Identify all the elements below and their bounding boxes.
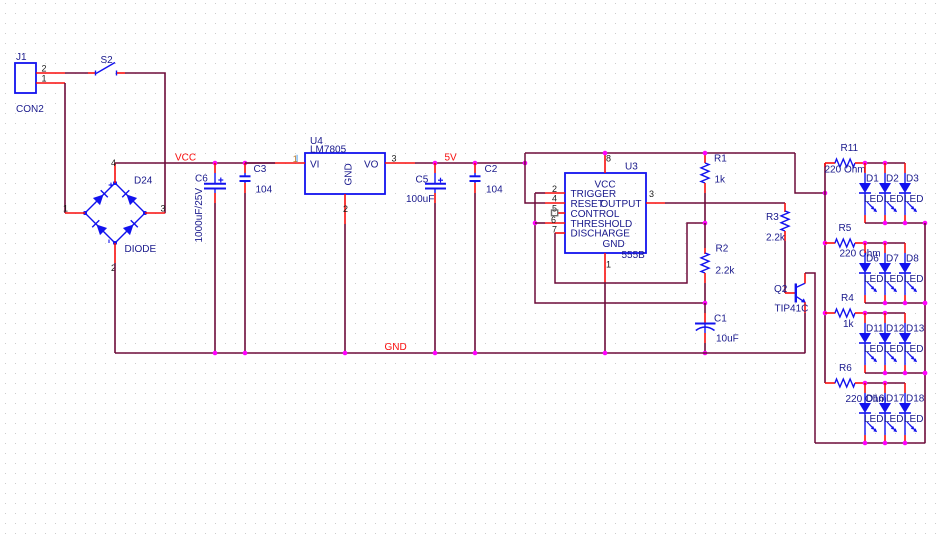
wire 5V rail <box>415 162 525 164</box>
wire C2 to ground rail <box>474 193 476 353</box>
svg-text:3: 3 <box>161 204 166 214</box>
junction cathode D12 <box>883 371 888 376</box>
svg-text:LED: LED <box>884 344 903 355</box>
wire S2 to bridge pin3 <box>125 73 165 213</box>
resistor R11 <box>825 159 865 167</box>
pin 3 of bridge <box>145 212 165 214</box>
svg-text:LED: LED <box>864 414 883 425</box>
junction anode D11 <box>863 311 868 316</box>
wire trigger down to threshold and C1 node <box>535 193 705 303</box>
junction right rail row3 <box>923 371 928 376</box>
wire LED left rail <box>824 163 826 383</box>
pin 3 of U3 <box>646 202 665 204</box>
wire VCC top rail to 555 and R1 <box>525 152 795 154</box>
junction at C6 top <box>213 161 218 166</box>
svg-text:5V: 5V <box>445 153 458 164</box>
svg-text:1: 1 <box>63 204 68 214</box>
pin 1 of U3 <box>604 253 606 283</box>
svg-text:LED: LED <box>884 194 903 205</box>
wire discharge pin7 loop <box>555 223 705 283</box>
svg-text:R2: R2 <box>716 244 729 255</box>
svg-text:LED: LED <box>864 344 883 355</box>
svg-text:LED: LED <box>904 274 923 285</box>
plus mark on bridge <box>109 183 114 188</box>
svg-text:104: 104 <box>256 185 273 196</box>
LED D2 <box>879 163 897 223</box>
pin 5 of U3 <box>557 212 565 214</box>
svg-text:2: 2 <box>552 184 557 194</box>
LED D6 <box>859 243 877 303</box>
svg-text:R6: R6 <box>839 363 852 374</box>
svg-text:D7: D7 <box>886 254 899 265</box>
svg-text:VI: VI <box>310 160 319 171</box>
LED D3 <box>899 163 917 223</box>
wire anode rail R11 row <box>865 162 905 164</box>
svg-text:DISCHARGE: DISCHARGE <box>571 229 631 240</box>
svg-text:LED: LED <box>864 274 883 285</box>
wire trigger pin2 left <box>535 192 545 194</box>
LED D17 <box>879 383 897 443</box>
svg-text:D1: D1 <box>866 174 879 185</box>
wire cathode rail D1-D3 <box>865 222 925 224</box>
pin 7 of U3 <box>555 232 565 234</box>
timer U3 body <box>565 173 646 253</box>
svg-text:R11: R11 <box>841 143 859 154</box>
wire R2 top <box>704 223 706 248</box>
pin 3 of U4 <box>385 162 415 164</box>
wire cathode rail D6-D8 <box>865 302 925 304</box>
svg-text:8: 8 <box>606 154 611 164</box>
svg-text:VCC: VCC <box>175 153 196 164</box>
junction C3 bottom <box>243 351 248 356</box>
svg-text:4: 4 <box>552 194 557 204</box>
resistor R3 <box>781 203 789 241</box>
pin 2 of bridge <box>114 243 116 263</box>
svg-text:TIP41C: TIP41C <box>775 304 809 315</box>
wire R3 to Q2 base <box>784 241 786 293</box>
wire bridge pin2 to ground rail <box>114 263 116 353</box>
svg-text:LED: LED <box>864 194 883 205</box>
wire J1 pin1 down to bridge pin1 <box>64 83 66 213</box>
diode D24 right-top <box>126 194 137 205</box>
junction at C3 top <box>243 161 248 166</box>
resistor R6 <box>825 379 865 387</box>
minus mark on bridge <box>108 240 110 244</box>
svg-text:555B: 555B <box>622 250 646 261</box>
junction cathode D18 <box>903 441 908 446</box>
junction anode D7 <box>883 241 888 246</box>
svg-text:D11: D11 <box>866 324 884 335</box>
capacitor C2 <box>470 163 481 193</box>
wire R2 bottom to node <box>704 283 706 303</box>
wire C3 to U4 pin1 <box>245 162 275 164</box>
svg-text:D6: D6 <box>866 254 879 265</box>
junction anode D6 <box>863 241 868 246</box>
svg-text:C3: C3 <box>254 164 267 175</box>
svg-text:D24: D24 <box>134 176 153 187</box>
svg-text:1: 1 <box>606 260 611 270</box>
LED D13 <box>899 313 917 373</box>
junction 5V at x525 <box>523 161 528 166</box>
svg-text:100uF: 100uF <box>406 194 434 205</box>
bridge rectifier D24 body <box>83 181 147 245</box>
junction U4 pin2 bottom <box>343 351 348 356</box>
diode D24 bottom-left <box>96 224 107 235</box>
svg-text:D2: D2 <box>886 174 899 185</box>
regulator U4 body <box>305 153 385 194</box>
svg-text:D13: D13 <box>906 324 925 335</box>
pin 2 of U4 <box>344 194 346 224</box>
junction right rail row2 <box>923 301 928 306</box>
diode D24 left-top <box>93 194 104 205</box>
svg-text:D18: D18 <box>906 394 925 405</box>
svg-text:104: 104 <box>486 185 503 196</box>
junction anode D12 <box>883 311 888 316</box>
svg-text:2.2k: 2.2k <box>766 233 786 244</box>
LED D11 <box>859 313 877 373</box>
svg-text:CON2: CON2 <box>16 104 44 115</box>
junction anode D17 <box>883 381 888 386</box>
svg-text:GND: GND <box>603 239 625 250</box>
svg-text:LED: LED <box>904 344 923 355</box>
pin 6 of U3 <box>545 222 565 224</box>
pin 8 of U3 <box>604 153 606 173</box>
svg-text:Q2: Q2 <box>774 284 788 295</box>
wire VCC rail <box>115 162 275 164</box>
capacitor C1 <box>695 303 716 343</box>
resistor R1 <box>701 153 709 193</box>
svg-text:DIODE: DIODE <box>125 244 157 255</box>
wire U3 pin1 to ground rail <box>604 283 606 353</box>
junction U3 pin1 bottom <box>603 351 608 356</box>
junction cathode D16 <box>863 441 868 446</box>
svg-text:1k: 1k <box>715 175 727 186</box>
capacitor C6 <box>204 163 226 203</box>
wire 5V down to reset pin4 <box>525 163 545 203</box>
svg-text:D16: D16 <box>866 394 885 405</box>
LED D8 <box>899 243 917 303</box>
resistor R4 <box>825 309 865 317</box>
svg-text:220 Ohm: 220 Ohm <box>825 165 866 176</box>
pin 1 of U4 <box>275 162 305 164</box>
junction left rail R4 <box>823 311 828 316</box>
LED D1 <box>859 163 877 223</box>
svg-text:10uF: 10uF <box>716 334 739 345</box>
wire VCC feed to LED rail <box>795 153 825 193</box>
resistor R2 <box>701 248 709 283</box>
svg-text:1k: 1k <box>843 319 855 330</box>
LED D18 <box>899 383 917 443</box>
wire C6 to ground rail <box>214 203 216 353</box>
wire U4 pin2 to ground rail <box>344 224 346 353</box>
svg-text:C5: C5 <box>416 174 429 185</box>
svg-text:LED: LED <box>884 274 903 285</box>
transistor Q2 <box>785 273 806 313</box>
svg-text:R5: R5 <box>839 223 852 234</box>
svg-text:LED: LED <box>904 414 923 425</box>
junction cathode D13 <box>903 371 908 376</box>
wire anode rail R4 row <box>865 312 905 314</box>
svg-text:LM7805: LM7805 <box>310 145 347 156</box>
wire ground rail <box>115 352 805 354</box>
pin 2 of U3 <box>545 192 565 194</box>
wire J1 pin2 to S2 <box>65 72 88 74</box>
svg-text:S2: S2 <box>101 55 114 66</box>
svg-text:5: 5 <box>552 203 557 213</box>
svg-text:D17: D17 <box>886 394 905 405</box>
svg-text:1000uF/25V: 1000uF/25V <box>194 188 205 243</box>
junction anode D2 <box>883 161 888 166</box>
junction cathode right rail <box>923 371 928 376</box>
svg-text:R3: R3 <box>766 212 779 223</box>
pin number 1 of U4 highlighted <box>296 155 298 162</box>
pin 2 of J1 <box>36 72 65 74</box>
switch S2 <box>88 63 125 76</box>
wire R1 bottom to node <box>704 193 706 223</box>
junction R2-C1-trigger node <box>703 301 708 306</box>
junction cathode D2 <box>883 221 888 226</box>
wire Q2 emitter to ground rail <box>804 313 806 353</box>
wire anode rail R5 row <box>865 242 905 244</box>
svg-text:2: 2 <box>343 204 348 214</box>
svg-text:D3: D3 <box>906 174 919 185</box>
svg-text:D12: D12 <box>886 324 905 335</box>
svg-text:C2: C2 <box>485 164 498 175</box>
junction at 555 pin8 <box>603 151 608 156</box>
junction C1 bottom <box>703 351 708 356</box>
junction cathode right rail <box>923 221 928 226</box>
svg-text:C1: C1 <box>714 314 727 325</box>
svg-text:6: 6 <box>551 215 556 225</box>
junction C5 bottom <box>433 351 438 356</box>
junction anode D1 <box>863 161 868 166</box>
wire C5 to ground rail <box>434 203 436 353</box>
svg-text:R1: R1 <box>714 154 727 165</box>
svg-text:C6: C6 <box>195 174 208 185</box>
pin 1 of J1 <box>36 82 65 84</box>
connector J1 <box>15 63 36 93</box>
svg-text:3: 3 <box>392 154 397 164</box>
wire C3 to ground rail <box>244 193 246 353</box>
svg-text:2.2k: 2.2k <box>716 266 736 277</box>
wire anode rail R6 row <box>865 382 905 384</box>
junction cathode D7 <box>883 301 888 306</box>
pin 4 of U3 <box>545 202 565 204</box>
wire threshold pin6 left <box>535 222 545 224</box>
junction R1 top <box>703 151 708 156</box>
svg-text:U3: U3 <box>625 162 638 173</box>
pin 4 of bridge <box>114 163 116 183</box>
no-connect box on pin 5 <box>552 210 558 216</box>
junction cathode D8 <box>903 301 908 306</box>
junction C2 bottom <box>473 351 478 356</box>
diode D24 bottom-right <box>123 224 134 235</box>
svg-text:2: 2 <box>41 64 46 74</box>
junction cathode D3 <box>903 221 908 226</box>
junction trigger-threshold <box>533 221 538 226</box>
svg-text:GND: GND <box>344 163 355 185</box>
wire 5V to 555 vertical <box>524 153 526 163</box>
LED D12 <box>879 313 897 373</box>
svg-text:LED: LED <box>904 194 923 205</box>
svg-text:GND: GND <box>385 342 407 353</box>
junction anode D16 <box>863 381 868 386</box>
wire cathode rail D16-D18 <box>815 442 925 444</box>
LED D7 <box>879 243 897 303</box>
junction LED feed <box>823 191 828 196</box>
capacitor C3 <box>240 163 251 193</box>
svg-text:1: 1 <box>41 74 46 84</box>
pin 1 of bridge <box>65 212 85 214</box>
wire output pin3 to R3 <box>665 202 785 204</box>
wire Q2 collector to LED cathode rail <box>805 273 815 443</box>
svg-text:3: 3 <box>649 189 654 199</box>
wire C1 to ground rail <box>704 343 706 353</box>
wire cathode rail D11-D13 <box>865 372 925 374</box>
wire LED right cathode rail <box>924 223 926 443</box>
svg-text:VO: VO <box>364 160 379 171</box>
LED D16 <box>859 383 877 443</box>
junction cathode right rail <box>923 301 928 306</box>
svg-text:J1: J1 <box>16 52 27 63</box>
junction C6 bottom <box>213 351 218 356</box>
junction at C5 top <box>433 161 438 166</box>
resistor R5 <box>825 239 865 247</box>
svg-text:D8: D8 <box>906 254 919 265</box>
svg-text:LED: LED <box>884 414 903 425</box>
svg-text:R4: R4 <box>841 293 854 304</box>
junction at C2 top <box>473 161 478 166</box>
junction left rail R5 <box>823 241 828 246</box>
svg-text:1: 1 <box>293 154 298 164</box>
capacitor C5 <box>425 163 446 203</box>
junction R1-R2-discharge <box>703 221 708 226</box>
junction cathode D17 <box>883 441 888 446</box>
